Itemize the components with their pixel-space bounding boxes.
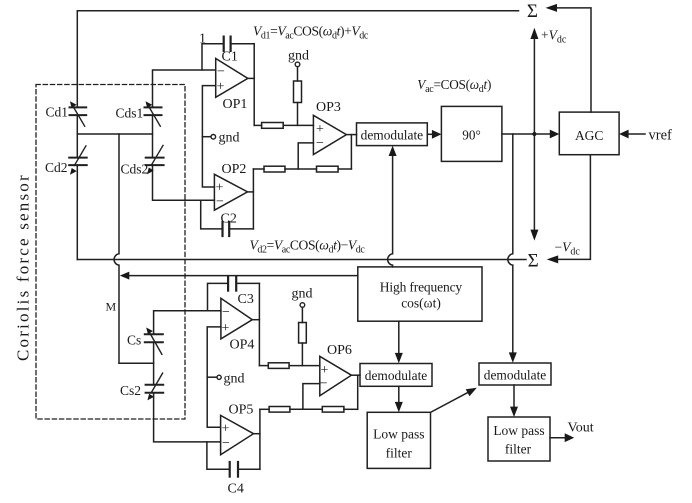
resistor R1 OP1 output: [254, 124, 261, 126]
svg-text:High frequency: High frequency: [380, 279, 463, 294]
wire AGC output up to top summer: [557, 8, 592, 112]
wire Cd2 down to bottom sum wire: [76, 165, 78, 259]
svg-text:vref: vref: [649, 128, 673, 144]
arrow demodulate to 90 box: [427, 133, 432, 135]
svg-text:gnd: gnd: [224, 372, 245, 387]
wire OP1 noninverting to OP2 noninverting: [202, 86, 215, 187]
svg-text:demodulate: demodulate: [361, 127, 424, 142]
node junction dot Vac: [532, 132, 536, 136]
op-amp OP2: [214, 174, 247, 210]
svg-text:Low pass: Low pass: [373, 427, 424, 442]
svg-text:Cds1: Cds1: [116, 106, 144, 121]
svg-text:−: −: [316, 136, 324, 151]
wire Cds1 bottom to bus: [152, 115, 154, 158]
svg-text:gnd: gnd: [288, 49, 309, 64]
svg-text:+: +: [217, 80, 225, 95]
wire OP2 output vertical: [248, 191, 254, 193]
svg-text:C1: C1: [222, 50, 238, 65]
wire M to Cs line: [119, 362, 154, 364]
gnd pull resistor bottom: [300, 303, 305, 308]
svg-text:Coriolis force sensor: Coriolis force sensor: [14, 173, 33, 361]
capacitor C2 feedback: [201, 200, 223, 229]
wire Cs bottom through M junction to Cs2: [153, 342, 155, 385]
svg-text:Low pass: Low pass: [493, 423, 544, 438]
wire Cds1 top to OP1 inverting input: [153, 70, 216, 107]
capacitor Cds1: [145, 107, 162, 115]
gnd pull resistor top: [295, 62, 300, 67]
gnd terminal between OP1 and OP2: [202, 136, 210, 138]
svg-text:Σ: Σ: [527, 1, 538, 22]
wire top drive V_d1: [77, 11, 518, 108]
svg-text:−: −: [216, 195, 224, 210]
svg-text:Vac=COS(ωdt): Vac=COS(ωdt): [417, 77, 491, 95]
wire OP6 output: [351, 374, 360, 376]
svg-text:Σ: Σ: [528, 251, 539, 272]
90 degree phase box: [441, 106, 502, 161]
wire high frequency up to demodulate 1 with hop: [388, 154, 393, 267]
wire 90 output to AGC: [502, 133, 551, 135]
svg-text:Cds2: Cds2: [121, 162, 149, 177]
svg-text:1: 1: [199, 32, 206, 47]
svg-text:cos(ωt): cos(ωt): [401, 296, 441, 311]
demodulate box 1: [360, 364, 432, 387]
svg-text:+: +: [222, 422, 230, 437]
low pass filter box 2: [488, 417, 550, 461]
svg-text:Cs2: Cs2: [120, 383, 141, 398]
capacitor C3 feedback: [208, 283, 229, 310]
arrow high frequency to demodulate 1: [398, 321, 400, 355]
wire bottom sum V_d2: [77, 259, 526, 261]
resistor R4 OP4 output: [259, 365, 268, 367]
wire Cs2 to OP5 inverting input: [154, 393, 221, 442]
arrow diagonal low pass 1 to demodulate 2: [431, 391, 471, 412]
capacitor Cs2: [146, 385, 164, 393]
wire bus node: [77, 133, 152, 135]
svg-text:demodulate: demodulate: [365, 368, 428, 383]
svg-text:demodulate: demodulate: [484, 367, 547, 382]
svg-text:Vd1=VacCOS(ωdt)+Vdc: Vd1=VacCOS(ωdt)+Vdc: [253, 23, 369, 41]
capacitor C1 feedback: [202, 44, 224, 70]
svg-text:OP6: OP6: [327, 343, 352, 358]
svg-text:Cd2: Cd2: [45, 160, 68, 175]
high frequency oscillator box: [358, 267, 482, 321]
capacitor Cs: [145, 334, 163, 342]
svg-text:+: +: [316, 122, 324, 137]
op-amp OP3: [313, 115, 346, 154]
svg-text:−: −: [222, 436, 230, 451]
demodulate box 2: [479, 363, 551, 385]
wire OP5 output vertical: [254, 433, 260, 435]
svg-text:AGC: AGC: [575, 128, 604, 143]
wire Cds2 to OP2 inverting input: [153, 165, 215, 200]
svg-text:M: M: [106, 300, 117, 314]
wire Cd1 to bus: [76, 115, 78, 134]
wire OP1 output and feedback vertical: [248, 77, 254, 79]
resistor R2 OP2 output: [253, 168, 264, 170]
wire drive arrow into node M from high frequency source: [127, 275, 358, 277]
wire OP4 noninverting to OP5 noninverting: [207, 327, 221, 427]
svg-text:Vout: Vout: [568, 420, 594, 435]
wire Vout arrow: [550, 437, 566, 439]
svg-text:OP5: OP5: [229, 403, 254, 418]
wire OP4 output and feedback vertical: [252, 319, 259, 321]
capacitor Cd2: [69, 158, 87, 166]
svg-text:gnd: gnd: [292, 287, 313, 302]
wire OP3 inverting input branch: [298, 143, 313, 169]
svg-text:gnd: gnd: [219, 131, 240, 146]
resistor R3 OP3 feedback: [317, 166, 339, 172]
svg-text:C2: C2: [221, 212, 237, 227]
svg-text:+: +: [216, 181, 224, 196]
low pass filter box 1: [367, 412, 430, 468]
capacitor C4 feedback: [207, 442, 230, 469]
wire OP6 inverting input branch: [303, 384, 320, 410]
svg-text:+Vdc: +Vdc: [541, 28, 567, 46]
op-amp OP4: [221, 298, 252, 339]
arrow demodulate 2 to low pass filter 2: [513, 385, 515, 409]
wire Cs top to OP4 inverting input: [154, 311, 221, 334]
AGC box: [559, 112, 619, 155]
svg-text:OP2: OP2: [222, 162, 247, 177]
op-amp OP5: [221, 415, 254, 454]
svg-text:+: +: [222, 321, 230, 336]
wire vref input arrow: [628, 133, 645, 135]
svg-text:90°: 90°: [462, 128, 480, 143]
resistor R6 OP6 feedback: [322, 407, 344, 413]
op-amp OP6: [320, 356, 352, 395]
wire 90 output down to demodulate 2 with hop: [508, 134, 513, 355]
svg-text:−Vdc: −Vdc: [555, 240, 581, 258]
svg-text:C4: C4: [228, 482, 244, 497]
svg-text:OP4: OP4: [230, 338, 255, 353]
svg-text:Cs: Cs: [127, 333, 141, 348]
wire plus minus Vdc bias arrows: [533, 35, 535, 232]
svg-text:−: −: [217, 65, 225, 80]
resistor R5 OP5 output: [260, 408, 269, 410]
svg-text:filter: filter: [505, 441, 532, 456]
wire node M vertical with hop over sum wire: [114, 134, 119, 363]
svg-text:OP3: OP3: [316, 100, 341, 115]
demodulate box top: [357, 123, 428, 146]
dashed sensor box: [36, 85, 185, 420]
svg-text:filter: filter: [386, 445, 413, 460]
op-amp OP1: [216, 59, 248, 98]
arrow demodulate 1 to low pass filter 1: [398, 386, 400, 404]
gnd terminal between OP4 and OP5: [207, 376, 217, 378]
svg-text:−: −: [320, 376, 328, 391]
wire AGC output down to bottom summer: [557, 155, 591, 260]
svg-text:OP1: OP1: [223, 97, 248, 112]
wire bus to Cd2: [76, 134, 78, 158]
wire OP3 output: [346, 134, 356, 136]
capacitor Cds2: [146, 158, 164, 166]
svg-text:C3: C3: [238, 292, 254, 307]
capacitor Cd1: [70, 107, 87, 115]
svg-text:Cd1: Cd1: [46, 105, 69, 120]
svg-text:−: −: [222, 305, 230, 320]
svg-text:Vd2=VacCOS(ωdt)−Vdc: Vd2=VacCOS(ωdt)−Vdc: [250, 237, 366, 255]
